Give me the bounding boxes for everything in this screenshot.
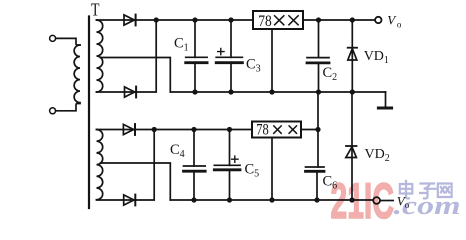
node top rail C3 junction xyxy=(228,17,233,22)
transformer secondary winding lower xyxy=(97,130,103,200)
transformer core xyxy=(88,17,90,209)
regulator U2 78xx xyxy=(252,122,301,138)
node lower rail C6 junction xyxy=(315,127,320,132)
node top rail D2 junction xyxy=(154,17,159,22)
wire secondary center tap upper xyxy=(101,58,171,93)
capacitor C5 xyxy=(214,130,240,201)
wire primary top xyxy=(56,38,80,45)
node top rail C2 junction xyxy=(316,17,321,22)
node common C2 junction xyxy=(316,89,321,94)
capacitor C5 plus sign xyxy=(232,156,238,162)
transformer secondary winding upper xyxy=(97,20,103,92)
node top rail VD1 junction xyxy=(350,17,355,22)
svg-text:C4: C4 xyxy=(170,142,185,160)
node lower rail C5 junction xyxy=(227,127,232,132)
terminal -V output xyxy=(373,197,380,204)
primary terminal top xyxy=(50,35,56,41)
capacitor C2 xyxy=(307,20,329,92)
svg-text:78: 78 xyxy=(256,122,269,139)
node bottom VD2 junction xyxy=(349,197,354,202)
capacitor C6 xyxy=(306,167,325,200)
regulator U1 78xx xyxy=(253,11,303,29)
primary terminal bottom xyxy=(50,108,56,114)
wire U1 ground pin xyxy=(271,29,273,92)
wire U2 ground pin xyxy=(271,138,273,201)
wire common to C6 column xyxy=(317,92,319,167)
wire top rail right xyxy=(303,19,375,21)
wire primary bottom xyxy=(56,104,80,111)
svg-text:C3: C3 xyxy=(246,56,261,74)
wire secondary lower + D2 branch xyxy=(97,20,157,92)
node bottom C4 junction xyxy=(191,197,196,202)
watermark chinese chars 电子网 xyxy=(400,181,452,198)
capacitor C1 xyxy=(186,20,207,92)
svg-text:T: T xyxy=(91,0,100,20)
node lower rail D4 junction xyxy=(152,127,157,132)
wire secondary bottom + D4 branch xyxy=(97,130,155,201)
transformer primary winding xyxy=(74,45,80,103)
node common C1 junction xyxy=(192,89,197,94)
node common C3 junction xyxy=(228,89,233,94)
capacitor C3 plus sign xyxy=(218,49,224,55)
wire VD2 column xyxy=(351,92,353,200)
wire U2 output to node xyxy=(301,129,318,131)
node bottom C6 junction xyxy=(314,197,319,202)
node top rail C1 junction xyxy=(192,17,197,22)
wire top rail left xyxy=(97,19,254,21)
node bottom C5 junction xyxy=(227,197,232,202)
svg-text:78: 78 xyxy=(258,13,272,30)
svg-text:C2: C2 xyxy=(323,65,338,83)
wire lower rail left xyxy=(97,129,253,131)
rectifier diode D4 xyxy=(124,195,136,206)
rectifier diode D1 xyxy=(124,15,136,26)
svg-text:VD2: VD2 xyxy=(365,147,390,164)
node lower rail C4 junction xyxy=(191,127,196,132)
rectifier diode D3 xyxy=(123,124,135,135)
diode VD2 xyxy=(346,146,357,158)
capacitor C3 xyxy=(216,20,242,92)
svg-text:Vo: Vo xyxy=(387,13,402,30)
label -Vo xyxy=(381,194,410,211)
watermark 21IC logo xyxy=(331,173,461,229)
wire common rail xyxy=(172,91,386,93)
wire bottom rail xyxy=(170,199,373,201)
terminal +V output xyxy=(375,17,381,23)
rectifier diode D2 xyxy=(125,87,137,98)
svg-text:C5: C5 xyxy=(245,161,260,179)
node bottom U2 junction xyxy=(269,197,274,202)
ground xyxy=(378,92,391,108)
node common VD1 junction xyxy=(350,89,355,94)
svg-text:C1: C1 xyxy=(174,35,189,53)
diode VD1 xyxy=(348,48,357,60)
node common U1 junction xyxy=(269,89,274,94)
capacitor C4 xyxy=(184,130,206,201)
svg-text:VD1: VD1 xyxy=(364,49,389,66)
wire VD1 column xyxy=(351,20,353,92)
wire secondary center tap lower xyxy=(101,163,171,200)
